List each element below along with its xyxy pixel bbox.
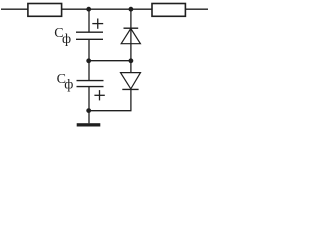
svg-text:ф: ф xyxy=(64,77,73,92)
svg-text:ф: ф xyxy=(62,32,71,47)
